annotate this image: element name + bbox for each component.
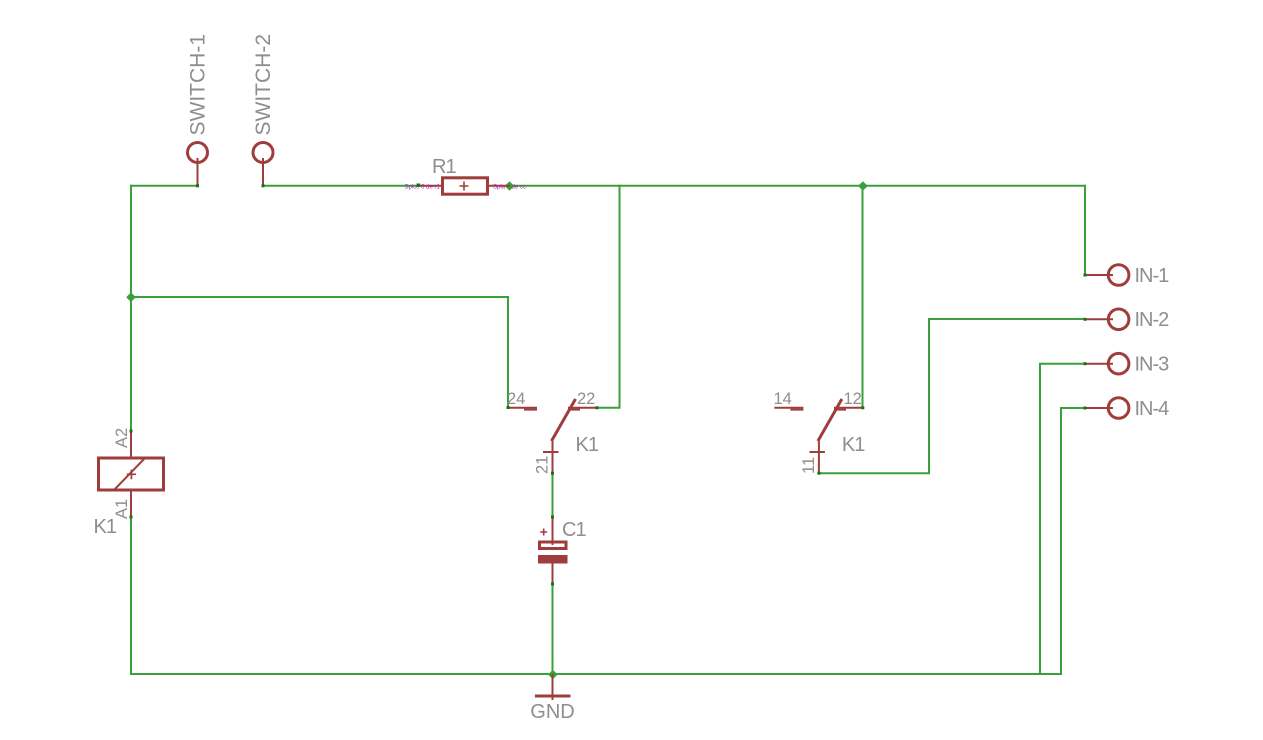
svg-text:SWITCH-1: SWITCH-1 (187, 34, 210, 136)
wire IN-4 riser (1061, 408, 1084, 674)
svg-text:de cc: de cc (512, 184, 526, 190)
relay contact K1 (pins 21/22/24) (507, 390, 599, 475)
connector SWITCH-2 (252, 34, 275, 187)
svg-text:IN-3: IN-3 (1135, 354, 1170, 376)
connector SWITCH-1 (187, 34, 210, 187)
capacitor C1 (538, 516, 586, 586)
resistor R1 (405, 156, 526, 194)
svg-text:IN-4: IN-4 (1135, 398, 1170, 420)
connector IN-2 (1084, 309, 1170, 331)
svg-text:IN-1: IN-1 (1135, 265, 1170, 287)
svg-text:IN-2: IN-2 (1135, 309, 1170, 331)
svg-text:21: 21 (534, 456, 552, 474)
pin 12 (834, 407, 862, 409)
junction at left vertical / second horizontal (126, 292, 136, 302)
svg-text:11: 11 (800, 457, 818, 474)
pin 11 common (818, 440, 820, 473)
svg-text:22: 22 (577, 390, 595, 408)
wire branch to pin 12 (862, 186, 864, 408)
connector IN-3 (1084, 353, 1170, 375)
svg-text:K1: K1 (94, 516, 117, 538)
junction at GND (548, 670, 558, 680)
relay coil K1 (94, 428, 164, 538)
svg-text:Spla: Spla (493, 184, 506, 190)
svg-text:Splce 0 de r1: Splce 0 de r1 (405, 184, 441, 190)
wire pin 11 to IN-2 (819, 319, 1084, 473)
wire IN-3 riser (1040, 364, 1084, 674)
wire branch to pin 22 (596, 186, 620, 408)
switch arm (552, 399, 576, 441)
junction at pin-12 branch (858, 181, 868, 191)
switch arm (818, 399, 842, 441)
svg-text:K1: K1 (842, 434, 865, 456)
wire drop to pin 24 (507, 297, 509, 408)
svg-text:C1: C1 (562, 519, 586, 541)
pin 22 (568, 407, 596, 409)
wire SWITCH-2 to R1 (263, 185, 420, 187)
connector IN-4 (1084, 398, 1170, 420)
wire bottom rail (131, 673, 1061, 675)
ground GND (530, 674, 574, 723)
wire left vertical (130, 186, 132, 431)
connector IN-1 (1084, 265, 1170, 287)
tiny pin annotations (magenta) (405, 184, 526, 190)
wire IN-1 drop (1084, 186, 1086, 275)
wire C1 to bottom rail (552, 584, 554, 674)
wire second horizontal (131, 296, 508, 298)
svg-text:A2: A2 (113, 428, 131, 448)
wire top rail left: corner to SWITCH-1 (131, 185, 198, 187)
svg-text:SWITCH-2: SWITCH-2 (252, 34, 275, 136)
pin 14 (774, 407, 803, 409)
svg-text:14: 14 (774, 390, 792, 408)
svg-text:K1: K1 (576, 434, 599, 456)
wire A1 to bottom rail (130, 517, 132, 674)
wire top rail right of R1 (510, 185, 1085, 187)
svg-text:24: 24 (507, 390, 525, 408)
pin 24 (508, 407, 537, 409)
pin 21 common (552, 440, 554, 473)
svg-text:R1: R1 (432, 156, 456, 178)
svg-text:12: 12 (844, 390, 862, 408)
wire pin 21 to C1 (552, 473, 554, 517)
junction right of R1 (505, 181, 515, 191)
relay contact K1 (pins 11/12/14) (774, 390, 866, 475)
svg-text:GND: GND (530, 701, 574, 723)
